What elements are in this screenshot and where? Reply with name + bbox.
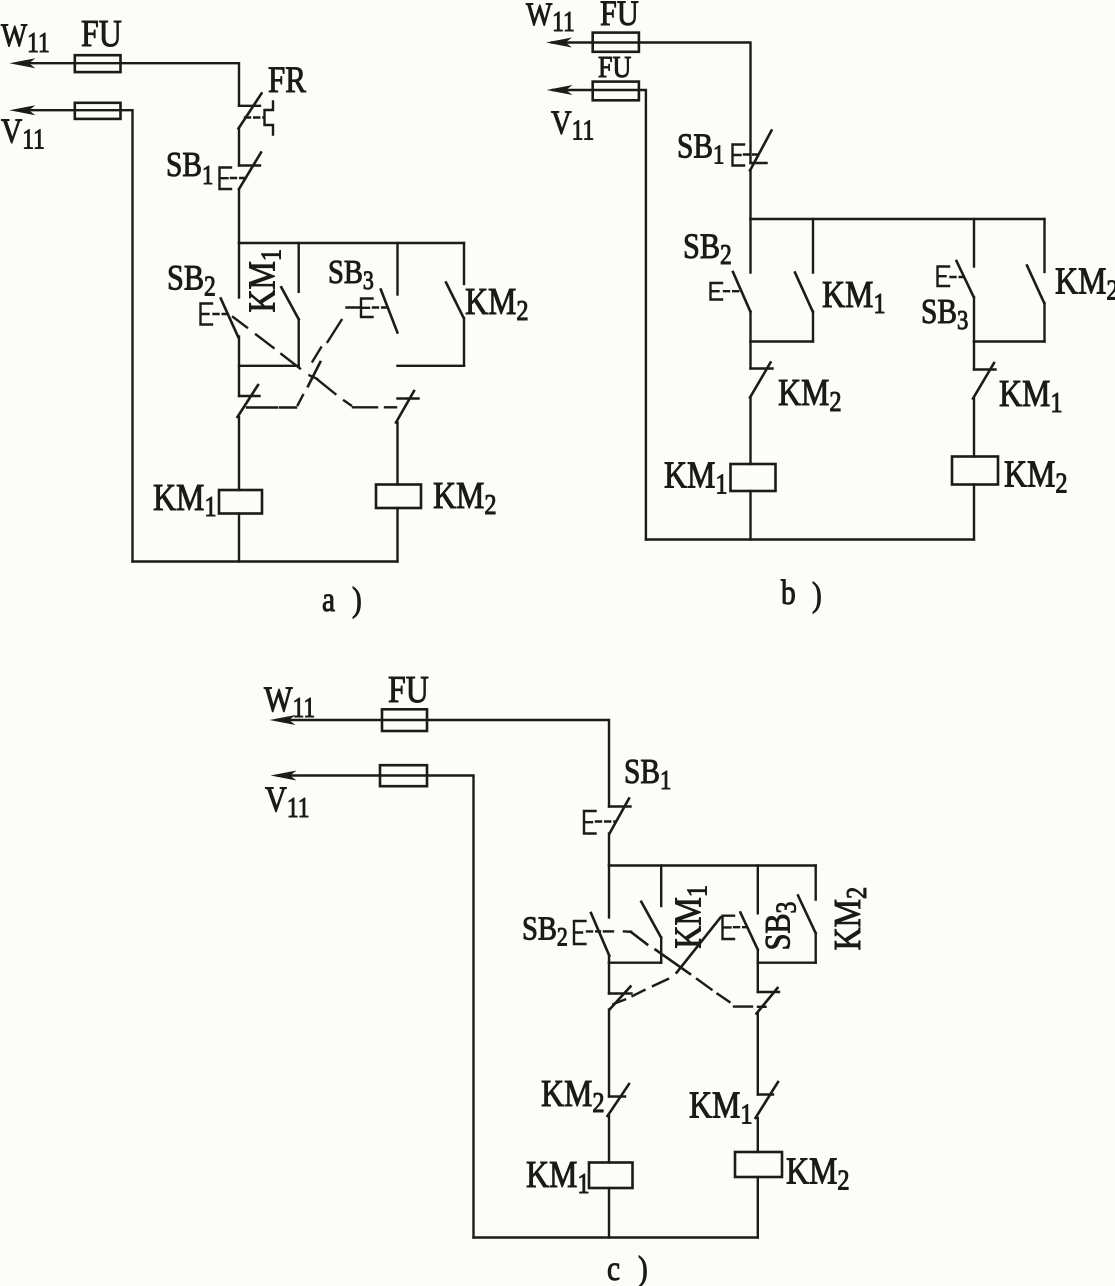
svg-text:FU: FU <box>388 668 429 710</box>
contactor KM1 aux NO contact (b) <box>812 219 814 273</box>
node W11 terminal arrow (c) <box>270 715 296 725</box>
SB3 link solid segment at crossing (c) <box>677 918 721 973</box>
pushbutton SB3 NC interlock contact left (c) <box>608 963 610 994</box>
right pair bottom rail (a) <box>398 365 465 367</box>
wire KM1 coil to bottom rail (b) <box>749 491 751 540</box>
svg-text:): ) <box>638 1249 648 1286</box>
svg-text:FU: FU <box>598 50 632 85</box>
contactor KM1 aux NO contact (a) <box>298 243 300 292</box>
contactor KM2 aux NO contact (a) <box>463 243 465 284</box>
SB3 link dashes lower (c) <box>653 979 668 986</box>
wire KM2 coil to bottom rail (c) <box>757 1177 759 1238</box>
contactor KM1 NC interlock contact (b) <box>973 342 975 370</box>
pushbutton SB2 NO contact (c) <box>608 866 610 918</box>
fuse FU lower (b) <box>593 82 639 101</box>
wire KM1 coil to bottom rail (c) <box>608 1188 610 1238</box>
wire KM2 coil to bottom rail (b) <box>973 485 975 540</box>
fuse FU lower (c) <box>380 765 427 786</box>
SB2 mechanical link dashes (c) <box>604 930 613 932</box>
fuse FU upper (c) <box>382 709 427 731</box>
contactor coil KM2 (c) <box>735 1152 782 1177</box>
svg-text:FU: FU <box>600 0 639 34</box>
svg-text:b: b <box>781 573 796 612</box>
node V11 terminal arrow (b) <box>547 85 573 95</box>
top rail of parallel branches (c) <box>609 864 816 866</box>
wire SB1 to top rail (a) <box>238 189 240 243</box>
SB2 mechanical link dashes (a) <box>233 317 247 328</box>
SB3 mechanical link lever (a) <box>347 306 362 308</box>
wire to coil KM1 (c) <box>608 1116 610 1163</box>
wire SB1 to top rail (c) <box>608 834 610 866</box>
pushbutton SB2 NC interlock contact right (a) <box>398 397 419 399</box>
left pair bottom rail (a) <box>239 365 299 367</box>
svg-text:a: a <box>322 580 335 619</box>
SB2 link dashes lower (c) <box>697 979 712 990</box>
pushbutton SB3 NO contact (b) <box>973 219 975 267</box>
contactor KM2 aux NO contact (c) <box>815 866 817 900</box>
right pair bottom rail (c) <box>758 962 816 964</box>
pushbutton SB2 NC interlock contact right (c) <box>757 963 759 992</box>
node W11 terminal arrow (b) <box>546 38 572 48</box>
pushbutton SB1 NC contact (b) <box>751 162 767 164</box>
thermal relay FR NC contact (a) <box>239 105 260 107</box>
node V11 terminal arrow (a) <box>9 105 35 115</box>
pushbutton SB2 NO contact (a) <box>238 243 240 298</box>
node V11 terminal arrow (c) <box>271 771 297 781</box>
top rail of parallel branches (a) <box>239 242 464 244</box>
wire to coil KM1 (a) <box>238 417 240 490</box>
svg-text:): ) <box>352 580 362 619</box>
contactor KM2 NC interlock contact (c) <box>609 1095 625 1097</box>
wire to coil KM1 (b) <box>749 398 751 465</box>
pushbutton SB1 NC contact (c) <box>609 805 631 807</box>
wire FR to SB1 (a) <box>238 129 240 166</box>
SB2 link solid segment at crossing (c) <box>656 950 691 974</box>
contactor KM2 aux NO contact (b) <box>1043 219 1045 272</box>
wire SB1 to top rail (b) <box>749 171 751 220</box>
pushbutton SB3 NC interlock contact left (a) <box>239 395 260 397</box>
svg-text:W11: W11 <box>526 0 575 37</box>
wire KM1 coil to bottom rail (a) <box>238 514 240 562</box>
contactor coil KM1 (a) <box>219 490 262 514</box>
svg-text:FR: FR <box>268 61 306 101</box>
left pair bottom rail (c) <box>609 962 661 964</box>
wire to KM2 interlock (c) <box>608 1010 610 1097</box>
contactor coil KM1 (b) <box>731 464 776 491</box>
svg-text:FU: FU <box>81 12 122 54</box>
bottom rail (b) <box>646 538 974 540</box>
SB3 link solid segment at crossing (a) <box>308 362 320 386</box>
wire to coil KM2 (a) <box>396 423 398 485</box>
SB2 link bend segment (c) <box>631 932 647 944</box>
wire SB2 to left NC (a) <box>238 337 240 397</box>
contactor coil KM2 (b) <box>952 457 998 485</box>
wire to coil KM2 (c) <box>757 1118 759 1152</box>
pushbutton SB3 NO contact (a) <box>396 243 398 295</box>
wire V11 feed through fuse to left return (a) <box>18 110 133 561</box>
SB3 link dashes lower (a) <box>298 395 303 405</box>
wire to KM1 interlock (c) <box>757 1014 759 1095</box>
svg-text:): ) <box>812 575 822 614</box>
wire to coil KM2 (b) <box>973 399 975 457</box>
node W11 terminal arrow (a) <box>9 58 35 68</box>
left pair bottom rail (b) <box>751 340 814 342</box>
contactor KM1 NC interlock contact (c) <box>758 1093 773 1095</box>
pushbutton SB3 NO contact (c) <box>757 866 759 914</box>
pushbutton SB1 NC contact (a) <box>239 164 260 166</box>
svg-text:KM2: KM2 <box>1055 260 1115 306</box>
wire W11 feed through fuse (a) <box>18 63 239 105</box>
wire V11 feed through fuse to left return (c) <box>279 776 474 1238</box>
svg-text:c: c <box>607 1249 620 1286</box>
fuse FU upper (a) <box>75 55 121 72</box>
wire W11 feed through fuse to SB1 corner (b) <box>552 43 751 164</box>
bottom rail (a) <box>133 560 398 562</box>
contactor KM1 aux NO contact (c) <box>660 866 662 907</box>
wire W11 feed through fuse to SB1 corner (c) <box>278 720 609 807</box>
wire KM2 coil to bottom rail (a) <box>396 508 398 562</box>
right pair bottom rail (b) <box>974 340 1045 342</box>
contactor coil KM2 (a) <box>376 485 421 509</box>
fuse FU lower (a) <box>75 103 121 119</box>
top rail of parallel branches (b) <box>751 218 1045 220</box>
contactor KM2 NC interlock contact (b) <box>749 342 751 369</box>
contactor coil KM1 (c) <box>589 1163 633 1189</box>
bottom rail (c) <box>474 1236 758 1238</box>
pushbutton SB2 NO contact (b) <box>749 219 751 273</box>
fuse FU upper (b) <box>593 33 639 52</box>
SB3 mechanical link dashes (a) <box>328 320 342 342</box>
wire V11 feed through fuse to left return (b) <box>553 90 646 540</box>
